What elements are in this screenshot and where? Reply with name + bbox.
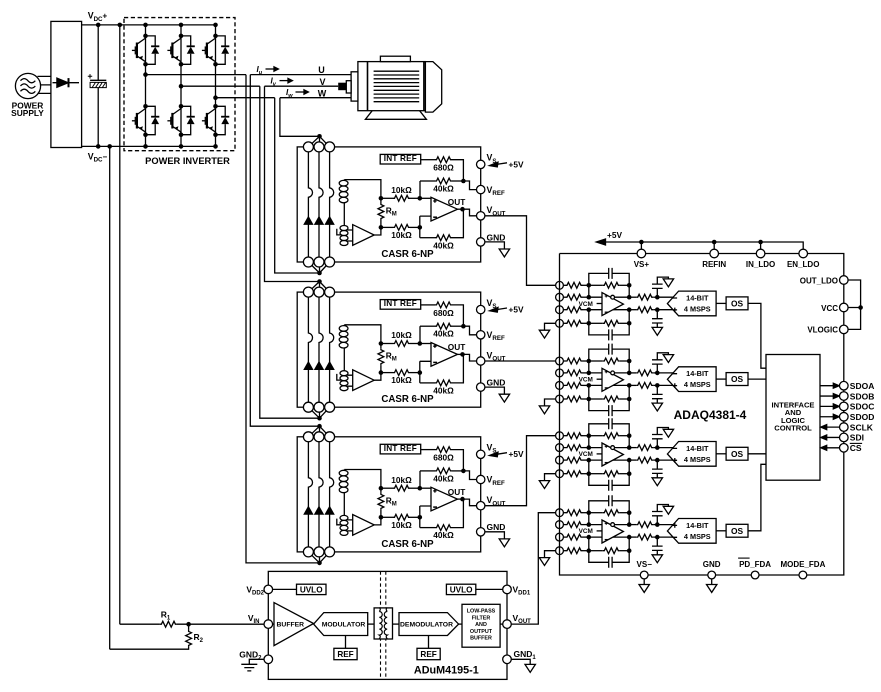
svg-text:DEMODULATOR: DEMODULATOR: [400, 622, 453, 629]
svg-text:SDOA: SDOA: [850, 381, 875, 391]
svg-text:SDI: SDI: [850, 433, 864, 443]
svg-text:IN_LDO: IN_LDO: [746, 260, 775, 269]
svg-text:V: V: [320, 77, 326, 87]
svg-text:FILTER: FILTER: [472, 615, 491, 621]
svg-text:MODULATOR: MODULATOR: [322, 622, 366, 629]
svg-text:AND: AND: [475, 622, 487, 628]
svg-text:VLOGIC: VLOGIC: [807, 326, 838, 335]
svg-text:CASR 6-NP: CASR 6-NP: [381, 249, 434, 260]
svg-text:REF: REF: [420, 650, 436, 659]
svg-text:40kΩ: 40kΩ: [433, 240, 454, 250]
svg-text:MODE_FDA: MODE_FDA: [780, 560, 825, 569]
svg-text:40kΩ: 40kΩ: [433, 183, 454, 193]
svg-text:UVLO: UVLO: [300, 585, 323, 594]
svg-text:UVLO: UVLO: [450, 585, 473, 594]
svg-text:REFIN: REFIN: [702, 260, 726, 269]
svg-text:SDOC: SDOC: [850, 402, 875, 412]
svg-text:INT REF: INT REF: [384, 154, 417, 163]
svg-text:REF: REF: [337, 650, 353, 659]
svg-text:BUFFER: BUFFER: [277, 622, 305, 629]
svg-text:10kΩ: 10kΩ: [391, 185, 412, 195]
svg-text:ADuM4195-1: ADuM4195-1: [414, 665, 479, 677]
svg-text:SDOB: SDOB: [850, 391, 875, 401]
svg-text:W: W: [318, 88, 327, 98]
svg-text:OUT_LDO: OUT_LDO: [800, 276, 838, 285]
svg-text:VCM: VCM: [579, 301, 593, 308]
svg-text:680Ω: 680Ω: [433, 163, 454, 173]
svg-text:CS: CS: [850, 443, 862, 453]
svg-text:VS+: VS+: [634, 260, 650, 269]
svg-text:+5V: +5V: [509, 159, 524, 169]
svg-text:14-BIT: 14-BIT: [686, 293, 709, 302]
svg-text:GND: GND: [487, 232, 506, 242]
svg-text:LOW-PASS: LOW-PASS: [467, 609, 496, 615]
svg-text:POWER INVERTER: POWER INVERTER: [145, 156, 230, 166]
svg-text:PD_FDA: PD_FDA: [739, 560, 771, 569]
svg-text:U: U: [318, 65, 325, 75]
svg-text:EN_LDO: EN_LDO: [787, 260, 819, 269]
svg-text:OUT: OUT: [448, 197, 466, 207]
svg-text:ADAQ4381-4: ADAQ4381-4: [674, 408, 747, 422]
svg-text:VCC: VCC: [821, 304, 838, 313]
svg-text:+5V: +5V: [607, 230, 622, 240]
svg-text:SDOD: SDOD: [850, 412, 875, 422]
svg-text:OUTPUT: OUTPUT: [470, 629, 493, 635]
svg-text:CONTROL: CONTROL: [774, 423, 812, 432]
svg-text:4 MSPS: 4 MSPS: [684, 304, 711, 313]
svg-text:SUPPLY: SUPPLY: [11, 108, 44, 118]
svg-text:10kΩ: 10kΩ: [391, 230, 412, 240]
svg-text:GND: GND: [703, 560, 721, 569]
svg-text:BUFFER: BUFFER: [470, 636, 492, 642]
svg-text:SCLK: SCLK: [850, 422, 874, 432]
svg-text:VS−: VS−: [637, 560, 653, 569]
svg-text:OS: OS: [731, 298, 744, 308]
